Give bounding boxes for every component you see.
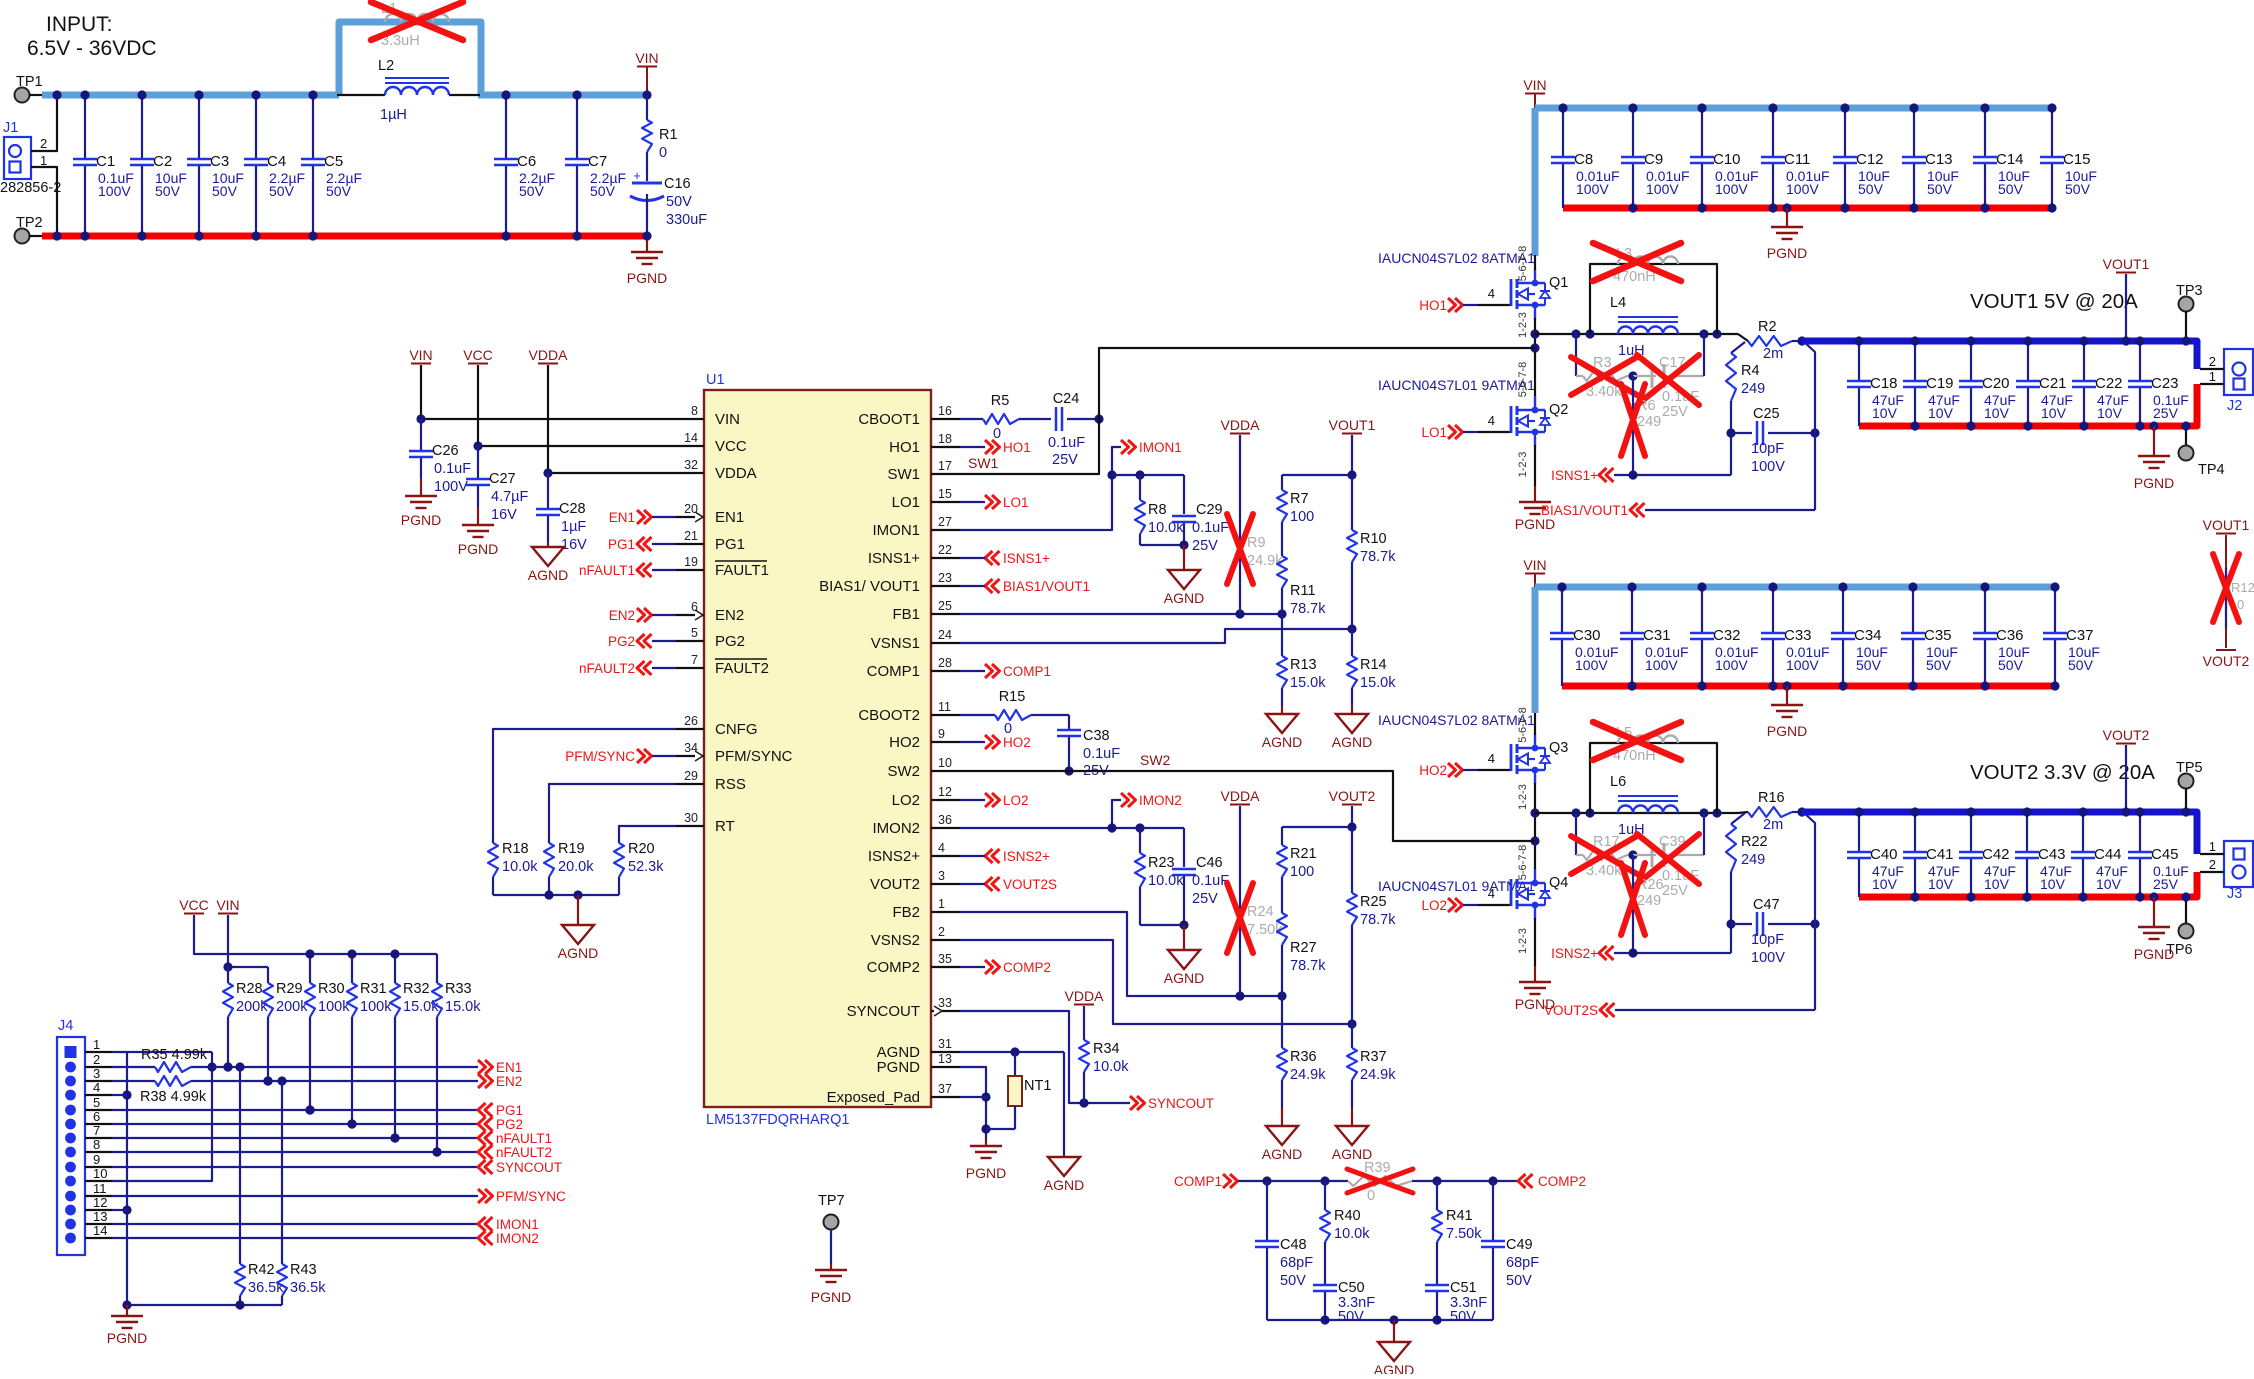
capacitor C2 [130,90,187,240]
pin J4-9 [65,1152,112,1172]
svg-text:R22: R22 [1741,834,1768,850]
svg-text:2: 2 [40,136,47,151]
wire J4 pin1 net [112,1051,212,1053]
node shunt out [1797,336,1806,345]
svg-text:4: 4 [1488,413,1495,428]
svg-text:CBOOT2: CBOOT2 [858,707,920,724]
flag PG1 J4 [478,1103,523,1118]
flag EN1 [609,510,676,525]
IC U1 body [704,372,931,1128]
capacitor C8 [1551,103,1620,208]
svg-text:HO2: HO2 [1419,763,1447,778]
svg-text:VCC: VCC [463,347,493,363]
svg-text:50V: 50V [666,194,692,210]
capacitor C32 [1690,582,1759,690]
svg-text:VOUT2S: VOUT2S [1544,1003,1598,1018]
svg-text:15.0k: 15.0k [1360,675,1396,691]
node R-C junction [1628,371,1637,380]
resistor R21 [1277,827,1317,913]
wire VOUT2 gnd bus (red) [1859,872,2197,897]
svg-text:C7: C7 [588,153,607,170]
svg-text:TP6: TP6 [2166,942,2193,958]
wire Exposed_Pad [960,1096,986,1098]
svg-text:R40: R40 [1334,1208,1361,1224]
svg-text:50V: 50V [326,183,352,199]
svg-text:200k: 200k [276,999,308,1015]
flag IMON2 J4 [478,1231,539,1246]
capacitor C35 [1901,582,1958,690]
capacitor C36 [1973,582,2030,690]
svg-text:2m: 2m [1763,817,1783,833]
capacitor C5 [301,90,362,240]
capacitor C42 [1959,807,2016,901]
power label VCC J4 [179,897,437,954]
capacitor C21 [2016,336,2073,430]
wire vout sense riser [1803,341,1815,510]
transistor Q2 [1511,396,1568,446]
svg-text:5: 5 [93,1095,100,1110]
svg-text:22: 22 [938,543,952,557]
label part number low-side [1378,878,1535,894]
svg-text:78.7k: 78.7k [1360,912,1396,928]
svg-text:4: 4 [1488,286,1495,301]
svg-text:nFAULT1: nFAULT1 [496,1131,552,1146]
wire R8 C29 bottom [1140,540,1189,549]
inductor L6 [1610,774,1678,838]
svg-text:PGND: PGND [107,1330,147,1346]
capacitor C33 [1761,582,1830,690]
resistor R27 [1277,913,1326,996]
flag nFAULT2 J4 [478,1145,552,1160]
svg-text:9: 9 [93,1152,100,1167]
svg-text:10V: 10V [2040,876,2066,892]
svg-text:25V: 25V [1052,452,1078,468]
svg-text:C3: C3 [210,153,229,170]
svg-text:8: 8 [93,1137,100,1152]
pin J4-11 [65,1181,112,1201]
capacitor C4 [244,90,305,240]
svg-text:IAUCN04S7L01 9ATMA1: IAUCN04S7L01 9ATMA1 [1378,377,1535,393]
wire gnd bus (red) [1563,205,2055,212]
svg-text:VDDA: VDDA [529,347,569,363]
wire EN1 row [212,1062,478,1071]
svg-text:AGND: AGND [558,945,598,961]
svg-text:C50: C50 [1338,1280,1365,1296]
svg-text:BIAS1/VOUT1: BIAS1/VOUT1 [1003,579,1090,594]
wire IMON1 route [960,447,1121,530]
svg-text:249: 249 [1741,852,1765,868]
svg-text:10.0k: 10.0k [1093,1059,1129,1075]
svg-text:AGND: AGND [1374,1362,1414,1374]
svg-text:15.0k: 15.0k [445,999,481,1015]
flag LO2 [1421,886,1511,913]
pin 31 AGND [877,1037,960,1061]
svg-text:PGND: PGND [877,1059,921,1076]
wire J4 gnd vertical [122,1052,131,1305]
flag HO2 [960,735,1031,750]
wire RT divider gnd [493,890,619,899]
svg-text:249: 249 [1741,381,1765,397]
node SW branches [1571,329,1721,338]
svg-text:PG1: PG1 [608,537,635,552]
svg-text:SW1: SW1 [887,466,920,483]
resistor R43 [277,1081,326,1305]
svg-text:FAULT1: FAULT1 [715,562,769,579]
net tie NT1 [1008,1052,1051,1129]
wire L1 bypass loop [339,22,481,95]
pin 19 FAULT1 [676,555,769,579]
svg-text:PG2: PG2 [608,634,635,649]
svg-text:EN2: EN2 [715,607,744,624]
svg-text:NT1: NT1 [1024,1078,1051,1094]
svg-text:13: 13 [93,1209,107,1224]
flag VOUT2S [1544,1003,1815,1018]
resistor R15 [960,689,1069,737]
connector J3 [2200,839,2253,902]
svg-text:25V: 25V [1662,404,1688,420]
svg-text:IMON1: IMON1 [1139,440,1182,455]
flag LO2 [960,793,1029,808]
wire VIN bus drop [1532,587,1539,713]
svg-text:50V: 50V [1858,181,1884,197]
ground AGND U1 [1044,1155,1084,1193]
pin J4-10 [65,1166,112,1186]
resistor R24 (DNP) [1227,883,1283,953]
ground AGND R37 [1332,1108,1372,1162]
flag HO1 [960,440,1031,455]
svg-text:0.1uF: 0.1uF [1192,520,1229,536]
svg-text:31: 31 [938,1037,952,1051]
wire divider1 top [1282,470,1357,479]
svg-text:100V: 100V [1645,657,1678,673]
svg-text:R43: R43 [290,1262,317,1278]
svg-text:PFM/SYNC: PFM/SYNC [715,748,793,765]
transistor Q1 [1511,269,1568,319]
svg-text:R32: R32 [403,981,430,997]
svg-text:19: 19 [684,555,698,569]
resistor R5 [960,393,1019,442]
svg-text:R38 4.99k: R38 4.99k [140,1089,207,1105]
wire VSNS2 [960,940,1357,1029]
svg-text:2: 2 [2209,354,2216,369]
capacitor C37 [2043,582,2100,690]
svg-text:L4: L4 [1610,295,1626,311]
svg-text:ISNS1+: ISNS1+ [1551,468,1598,483]
svg-text:1: 1 [40,153,47,168]
svg-text:LO2: LO2 [892,792,920,809]
svg-text:PG1: PG1 [715,536,745,553]
flag PFM/SYNC [565,749,676,764]
svg-text:PFM/SYNC: PFM/SYNC [496,1189,566,1204]
svg-text:C28: C28 [559,501,586,517]
svg-text:PGND: PGND [1767,245,1807,261]
svg-text:C32: C32 [1713,627,1741,644]
node R-C junction [1628,850,1637,859]
svg-text:7: 7 [93,1123,100,1138]
svg-text:C23: C23 [2151,375,2179,392]
capacitor C44 [2071,807,2128,901]
svg-text:EN1: EN1 [609,510,635,525]
svg-text:1-2-3: 1-2-3 [1517,452,1529,478]
pin 21 PG1 [676,529,745,553]
wire SW node vertical [1530,783,1539,870]
wire comp gnd rail [1267,1315,1493,1324]
flag ISNS2+ [1551,946,1731,961]
svg-text:5-6-7-8: 5-6-7-8 [1517,362,1529,397]
svg-text:R28: R28 [236,981,263,997]
svg-text:100k: 100k [318,999,350,1015]
inductor L1 (DNP) [371,1,463,49]
svg-text:16V: 16V [561,537,587,553]
flag COMP2 pin [960,960,1051,975]
svg-text:12: 12 [93,1195,107,1210]
svg-text:R34: R34 [1093,1041,1120,1057]
svg-text:R1: R1 [659,127,678,143]
svg-text:C29: C29 [1196,502,1223,518]
svg-text:15: 15 [938,487,952,501]
label pins 1-2-3 (low FET source) [1517,452,1529,478]
svg-text:VIN: VIN [635,50,658,66]
capacitor C19 [1903,336,1960,430]
svg-text:0.1uF: 0.1uF [1048,435,1085,451]
capacitor C10 [1690,103,1759,212]
resistor R18 [488,841,538,895]
capacitor C15 [2040,103,2097,212]
svg-text:HO2: HO2 [889,734,920,751]
svg-text:EN2: EN2 [496,1074,522,1089]
svg-text:1-2-3: 1-2-3 [1517,312,1529,338]
wire PG2 row [112,1119,478,1128]
test point TP3 [2176,283,2203,346]
resistor R9 (DNP) [1227,514,1283,584]
svg-text:VDDA: VDDA [1065,988,1105,1004]
svg-text:AGND: AGND [1262,734,1302,750]
flag BIAS1/VOUT1 [1541,503,1815,518]
resistor R12 (DNP) [2213,535,2254,628]
capacitor C11 [1761,103,1830,212]
svg-text:COMP2: COMP2 [867,959,920,976]
ground AGND C46 [1164,925,1204,986]
wire VOUT2 bus (dark blue) [1802,812,2197,854]
flag IMON2 [1121,793,1182,808]
svg-text:IMON2: IMON2 [872,820,920,837]
resistor R23 [1135,828,1184,925]
pin 10 SW2 [887,756,960,780]
svg-text:AGND: AGND [1164,970,1204,986]
svg-text:C8: C8 [1574,151,1593,168]
svg-text:0.1uF: 0.1uF [1083,746,1120,762]
pin 5 PG2 [676,626,745,650]
resistor R3 (DNP) [1571,355,1637,400]
capacitor C3 [187,90,244,240]
wire IMON2 row [112,1237,478,1239]
wire drain Q1 [1534,255,1536,270]
svg-text:VCC: VCC [715,438,747,455]
svg-text:37: 37 [938,1082,952,1096]
wire VIN bus (light blue) [1535,584,2058,591]
flag COMP1 pin [960,664,1051,679]
svg-text:C1: C1 [96,153,115,170]
svg-text:Q1: Q1 [1549,275,1568,291]
svg-text:BIAS1/VOUT1: BIAS1/VOUT1 [1541,503,1628,518]
power label VOUT2 tap [2103,727,2150,817]
wire SW node vertical [1530,318,1539,397]
svg-text:23: 23 [938,571,952,585]
svg-text:PFM/SYNC: PFM/SYNC [565,749,635,764]
svg-text:L2: L2 [378,58,394,74]
pin J4-3 [65,1066,112,1086]
pin 30 RT [676,811,735,835]
capacitor C16 (polarized) [630,168,707,236]
wire VIN bus drop [1532,108,1539,256]
svg-text:VOUT1 5V @ 20A: VOUT1 5V @ 20A [1970,290,2138,313]
svg-text:LO1: LO1 [1421,425,1447,440]
pin 4 ISNS2+ [868,841,960,865]
svg-text:21: 21 [684,529,698,543]
svg-text:10V: 10V [2041,405,2067,421]
wire source Q2 [1534,445,1536,486]
wire SW to inductor [1535,334,1748,341]
node J1 junctions [52,90,61,240]
wire divider2 top [1282,822,1357,831]
label part number low-side [1378,377,1535,393]
svg-text:R33: R33 [445,981,472,997]
svg-text:10V: 10V [1872,876,1898,892]
svg-text:HO1: HO1 [1003,440,1031,455]
svg-text:20.0k: 20.0k [558,859,594,875]
svg-text:LO2: LO2 [1421,898,1447,913]
svg-text:25V: 25V [1192,891,1218,907]
svg-text:AGND: AGND [1164,590,1204,606]
label header [1970,290,2138,313]
svg-text:C15: C15 [2063,151,2091,168]
resistor R40 [1320,1181,1370,1284]
svg-text:VIN: VIN [409,347,432,363]
svg-text:2: 2 [938,925,945,939]
wire source Q4 [1534,918,1536,966]
svg-text:5-6-7-8: 5-6-7-8 [1517,845,1529,880]
svg-text:AGND: AGND [1044,1177,1084,1193]
svg-text:R16: R16 [1758,790,1785,806]
svg-text:C24: C24 [1053,391,1080,407]
capacitor C31 [1620,582,1689,690]
svg-text:10pF: 10pF [1751,932,1784,948]
svg-text:J3: J3 [2227,886,2242,902]
svg-text:HO1: HO1 [889,439,920,456]
svg-text:R37: R37 [1360,1049,1387,1065]
pin 12 LO2 [892,785,960,809]
capacitor C27 [466,446,529,523]
svg-text:Q2: Q2 [1549,402,1568,418]
svg-text:R10: R10 [1360,531,1387,547]
svg-text:24.9k: 24.9k [1360,1067,1396,1083]
capacitor C45 [2128,807,2189,901]
flag SYNCOUT [1130,1096,1214,1111]
svg-text:15.0k: 15.0k [1290,675,1326,691]
svg-text:PGND: PGND [1515,516,1555,532]
connector J4 body [57,1018,85,1255]
ground AGND R13 [1262,706,1302,750]
svg-text:VDDA: VDDA [1221,417,1261,433]
svg-text:1: 1 [93,1037,100,1052]
svg-text:10: 10 [938,756,952,770]
power label VDDA div1 [1221,417,1261,614]
svg-text:50V: 50V [519,183,545,199]
svg-text:249: 249 [1637,893,1661,909]
pin J4-14 [65,1223,112,1243]
svg-text:C49: C49 [1506,1237,1533,1253]
svg-text:50V: 50V [2068,657,2094,673]
resistor R8 [1135,475,1184,545]
svg-text:PGND: PGND [627,270,667,286]
wire L2 node [337,94,480,96]
svg-text:C5: C5 [324,153,343,170]
power label VDDA R34 [1065,988,1105,1040]
node vout sense [1810,919,1819,928]
svg-text:L6: L6 [1610,774,1626,790]
wire isns riser [1730,924,1732,953]
svg-text:282856-2: 282856-2 [0,180,61,196]
capacitor C14 [1973,103,2030,212]
svg-text:nFAULT1: nFAULT1 [579,563,635,578]
flag nFAULT1 J4 [478,1131,552,1146]
svg-text:3: 3 [93,1066,100,1081]
capacitor C22 [2072,336,2129,430]
resistor R41 [1432,1181,1482,1284]
inductor L4 [1610,295,1678,359]
node VIN-R1 [642,90,651,99]
resistor R6 (DNP) [1621,376,1661,475]
svg-text:C35: C35 [1924,627,1952,644]
svg-text:1µF: 1µF [561,519,586,535]
svg-text:R21: R21 [1290,846,1317,862]
svg-text:7: 7 [691,653,698,667]
pin 32 VDDA [676,458,757,482]
wire VOUT1 bus (dark blue) [1802,341,2197,369]
flag nFAULT1 [579,563,676,578]
svg-text:50V: 50V [1998,657,2024,673]
pin 9 HO2 [889,727,960,751]
svg-text:12: 12 [938,785,952,799]
capacitor C51 [1425,1280,1487,1325]
resistor R34 [1079,1040,1129,1103]
svg-text:6.5V - 36VDC: 6.5V - 36VDC [27,37,157,60]
svg-text:C43: C43 [2038,846,2066,863]
wire J4 gnd rail [122,1300,282,1309]
svg-text:25: 25 [938,599,952,613]
resistor R38 [112,1076,478,1105]
svg-text:28: 28 [938,656,952,670]
svg-text:VOUT2 3.3V @ 20A: VOUT2 3.3V @ 20A [1970,761,2155,784]
svg-text:25V: 25V [2153,405,2179,421]
svg-text:50V: 50V [1338,1309,1364,1325]
resistor R22 [1726,813,1768,924]
pin 23 BIAS1/ VOUT1 [819,571,960,595]
capacitor C48 [1255,1181,1313,1320]
power label VIN [635,50,658,95]
svg-text:0.1uF: 0.1uF [1192,873,1229,889]
wire VIN bus (light blue) [1535,105,2055,112]
wire SYNCOUT row [112,1166,478,1168]
svg-text:R27: R27 [1290,940,1317,956]
svg-text:24.9k: 24.9k [1290,1067,1326,1083]
svg-text:Exposed_Pad: Exposed_Pad [827,1089,920,1106]
transistor Q3 [1511,734,1568,784]
svg-text:PG2: PG2 [496,1117,523,1132]
svg-text:3: 3 [938,869,945,883]
wire VDDA to pin32 [543,468,676,477]
flag PG1 [608,537,676,552]
